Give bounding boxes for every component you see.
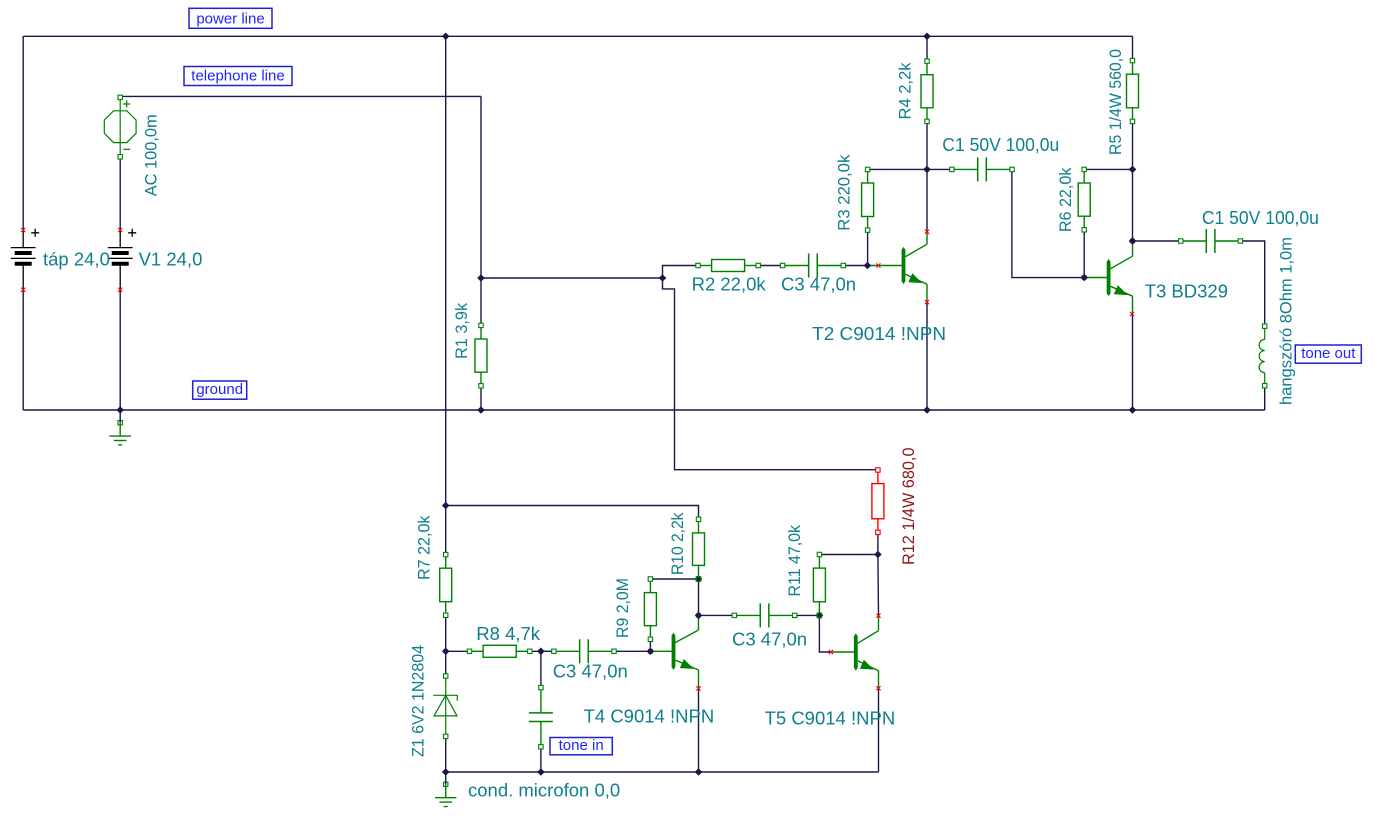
pin marker V1 -	[118, 288, 122, 292]
svg-text:C3 47,0n: C3 47,0n	[732, 628, 807, 649]
resistor R10 2,2k	[693, 519, 705, 579]
wire node to C3 coupling cap	[541, 650, 554, 652]
pin marker V1 +	[118, 228, 122, 232]
wire ground stub bottom	[445, 772, 447, 784]
capacitor C1 50V 100,0u (interstage)	[952, 157, 1012, 181]
wire y=505 row to R10	[446, 506, 699, 520]
pin marker T2 base	[876, 263, 880, 267]
wire R5 bottom to node	[1132, 121, 1134, 169]
wire feedback jog down	[663, 278, 878, 470]
wire T5 emitter to bottom rail	[878, 688, 880, 772]
svg-text:R3 220,0k: R3 220,0k	[836, 154, 854, 231]
pin marker under T3 collector junction	[1130, 239, 1134, 243]
junction power line / mid rail	[442, 33, 450, 41]
wire left rail upper	[22, 36, 24, 230]
junction ground rail / T3 emitter	[1129, 406, 1137, 414]
transistor T4 C9014 !NPN	[650, 615, 698, 687]
junction ground rail / R1	[477, 406, 485, 414]
pin marker battery1 +	[21, 228, 25, 232]
svg-text:T4 C9014 !NPN: T4 C9014 !NPN	[584, 706, 715, 727]
svg-text:R11 47,0k: R11 47,0k	[786, 524, 804, 596]
wire Z1 bottom to bottom rail	[445, 736, 447, 772]
wire tone-in cap bottom lead	[540, 747, 542, 772]
svg-text:táp 24,0: táp 24,0	[43, 249, 110, 270]
net label tone out	[1295, 345, 1361, 363]
svg-text:R4 2,2k: R4 2,2k	[897, 62, 915, 120]
pin marker T4 base	[648, 649, 652, 653]
svg-text:power line: power line	[196, 10, 264, 27]
svg-text:R12 1/4W 680,0: R12 1/4W 680,0	[900, 448, 918, 566]
wire R4 top lead	[926, 36, 928, 61]
wire rail to R7	[445, 506, 447, 555]
wire node down to T2 collector	[926, 169, 928, 231]
pin marker T4 emitter	[696, 686, 700, 690]
wire C1 out to speaker corner	[1240, 241, 1264, 326]
wire power line top rail	[23, 35, 1132, 37]
wire R5 node to T3 collector node	[1132, 169, 1134, 241]
svg-text:R7 22,0k: R7 22,0k	[416, 515, 434, 580]
wire C1 right drop	[1012, 169, 1084, 277]
net label power line	[189, 8, 272, 28]
wire R10 junction to T4 collector	[698, 579, 700, 615]
capacitor C3 47,0n (T4 base coupling)	[554, 639, 614, 663]
pin marker T4 collector	[696, 613, 700, 617]
transistor T2 C9014 !NPN	[867, 230, 927, 302]
wire T4 collector node to C3 left	[699, 614, 735, 616]
svg-text:cond. microfon 0,0: cond. microfon 0,0	[468, 779, 620, 800]
resistor R7 22,0k	[440, 555, 452, 616]
svg-text:Z1 6V2 1N2804: Z1 6V2 1N2804	[410, 645, 428, 757]
capacitor C3 47,0n (first stage coupling)	[783, 254, 844, 278]
junction ground rail / T2 emitter	[923, 406, 931, 414]
ground symbol bottom	[444, 782, 448, 786]
wire R8 node stub	[446, 650, 470, 652]
wire R12 node to T5 collector	[877, 555, 880, 616]
pin marker T3 base	[1082, 276, 1086, 280]
svg-text:AC 100,0m: AC 100,0m	[142, 114, 160, 196]
svg-text:ground: ground	[196, 381, 243, 398]
capacitor C3 47,0n (tone in shunt)	[529, 688, 553, 747]
junction R8/C3 node	[537, 648, 545, 656]
pin marker battery1 -	[21, 288, 25, 292]
wire V1 column lower	[119, 290, 121, 410]
wire T4 emitter to bottom rail	[698, 688, 700, 772]
wire T3 collector node to C1 out	[1133, 240, 1181, 242]
wire R6 bottom to T3 base node	[1083, 230, 1085, 278]
wire R1 top lead	[480, 278, 482, 325]
AC source AC 100,0m	[104, 97, 136, 156]
net label tone in	[550, 738, 612, 755]
transistor T5 C9014 !NPN	[831, 616, 879, 688]
wire R12 bottom lead to node	[877, 532, 879, 554]
wire C3 to T2 base node	[843, 265, 867, 267]
label R10 2,2k	[670, 512, 685, 577]
svg-text:R9 2,0M: R9 2,0M	[614, 578, 632, 638]
wire telephone line drop to node	[480, 96, 482, 278]
svg-text:C1 50V 100,0u: C1 50V 100,0u	[1202, 207, 1319, 228]
wire T2 emitter to ground rail	[926, 302, 928, 410]
junction node 662	[659, 274, 667, 282]
junction R4/R3/C1 node	[923, 166, 931, 174]
junction T3 collector node	[1129, 237, 1137, 245]
resistor R5 1/4W 560,0	[1127, 61, 1139, 122]
resistor R8 4,7k	[470, 645, 530, 657]
resistor R6 22,0k	[1078, 169, 1090, 229]
wire speaker bottom to ground rail	[1264, 386, 1266, 410]
wire node to C1 left	[927, 168, 952, 170]
transistor T3 BD329	[1084, 242, 1133, 314]
junction telephone node	[477, 274, 485, 282]
speaker hangszoro 8Ohm 1,0m (inductor)	[1259, 326, 1265, 386]
svg-text:T5 C9014 !NPN: T5 C9014 !NPN	[765, 708, 896, 729]
wire R8 node to Z1	[445, 651, 447, 676]
wire R11 node jog to T5 base	[819, 615, 831, 652]
junction bottom rail / Z1	[442, 768, 450, 776]
ground symbol left	[118, 421, 122, 425]
svg-text:tone in: tone in	[559, 737, 604, 754]
net label ground	[193, 381, 247, 399]
junction power line / R4	[923, 33, 931, 41]
junction T2 base node	[864, 262, 872, 270]
wire R3 bottom to base node	[867, 230, 869, 265]
wire node row y=278	[481, 277, 663, 279]
wire C3 right to R11 node	[795, 614, 820, 616]
wire R3 top to R4 node	[868, 168, 927, 170]
resistor R2 22,0k	[698, 260, 758, 272]
wire bottom rail	[446, 771, 879, 773]
pin marker T5 collector	[876, 614, 880, 618]
svg-text:V1 24,0: V1 24,0	[139, 249, 203, 270]
net label telephone line	[184, 67, 292, 86]
pin marker T2 collector	[925, 230, 929, 234]
capacitor C3 47,0n (T5 base coupling)	[734, 603, 794, 627]
svg-text:hangszóró 8Ohm 1,0m: hangszóró 8Ohm 1,0m	[1278, 237, 1296, 405]
pin marker T5 emitter	[876, 686, 880, 690]
wire R2 to C3 segment	[758, 265, 782, 267]
svg-text:T2 C9014 !NPN: T2 C9014 !NPN	[812, 323, 946, 344]
resistor R3 220,0k	[862, 169, 874, 230]
wire mid rail x=446	[445, 36, 447, 505]
zener diode Z1 6V2 1N2804	[433, 676, 457, 736]
wire C3 to T4 base node	[614, 650, 650, 652]
wire R5 top lead	[1132, 36, 1134, 60]
wire V1 column upper	[119, 157, 121, 230]
junction R11 bottom (with terminal)	[817, 613, 821, 617]
svg-text:R5 1/4W 560,0: R5 1/4W 560,0	[1107, 49, 1125, 155]
junction R7/R8/Z1 node	[442, 648, 450, 656]
pin marker T5 base	[829, 650, 833, 654]
svg-text:T3 BD329: T3 BD329	[1145, 281, 1228, 302]
junction bottom rail / T4 emitter	[695, 768, 703, 776]
battery V1 24,0	[108, 229, 136, 290]
junction T3 base node	[1080, 274, 1088, 282]
wire R7 bottom to R8 node	[445, 615, 447, 651]
wire R1 bottom lead	[480, 386, 482, 410]
wire R6 top to R5 rail	[1084, 168, 1132, 170]
capacitor C1 50V 100,0u (output)	[1181, 229, 1241, 253]
wire R9 bottom to T4 base node	[649, 639, 651, 651]
wire R10 bottom to R9 top	[650, 578, 698, 580]
wire telephone line horizontal	[120, 95, 481, 97]
pin marker T3 collector	[1130, 239, 1134, 243]
svg-text:C3 47,0n: C3 47,0n	[781, 274, 856, 295]
resistor R4 2,2k	[921, 61, 933, 121]
wire R11 top to R12 node	[819, 554, 878, 556]
wire ground stub left	[119, 410, 121, 423]
battery tap 24,0 (left)	[11, 229, 39, 290]
pin marker under T4 base junction	[648, 649, 652, 653]
wire T3 emitter to ground rail	[1132, 314, 1134, 410]
svg-text:telephone line: telephone line	[191, 68, 284, 85]
resistor R9 2,0M	[644, 579, 656, 639]
resistor R1 3,9k	[475, 325, 487, 385]
wire R8 right to C3 node	[530, 650, 541, 652]
svg-text:R6 22,0k: R6 22,0k	[1057, 167, 1075, 232]
wire ground rail	[23, 409, 1265, 411]
pin marker T3 emitter	[1130, 312, 1134, 316]
svg-text:R10 2,2k: R10 2,2k	[669, 512, 687, 575]
wire R4 bottom to node	[926, 121, 928, 169]
wire left rail lower	[22, 290, 24, 410]
junction R10 bottom (with terminal)	[695, 575, 703, 583]
svg-text:C3 47,0n: C3 47,0n	[553, 660, 628, 681]
svg-text:tone out: tone out	[1301, 345, 1356, 362]
svg-text:C1 50V 100,0u: C1 50V 100,0u	[942, 134, 1059, 155]
junction ground rail / V1	[116, 406, 124, 414]
svg-text:R8 4,7k: R8 4,7k	[476, 623, 541, 644]
svg-text:R2 22,0k: R2 22,0k	[692, 274, 767, 295]
wire tone-in cap top lead	[540, 651, 542, 687]
pin marker T2 emitter	[925, 300, 929, 304]
junction R5/R6 node	[1129, 166, 1137, 174]
resistor R12 1/4W 680,0	[872, 470, 884, 532]
pin marker under T3 base junction	[1082, 275, 1086, 279]
junction R11/R12 node	[874, 551, 882, 559]
junction bottom rail / tone-in cap	[537, 768, 545, 776]
junction T4 base node	[647, 648, 655, 656]
wire jog up to R2 row	[663, 266, 699, 279]
resistor R11 47,0k	[813, 555, 825, 616]
junction mid rail / R10 row	[442, 502, 450, 510]
svg-text:R1 3,9k: R1 3,9k	[453, 302, 471, 359]
